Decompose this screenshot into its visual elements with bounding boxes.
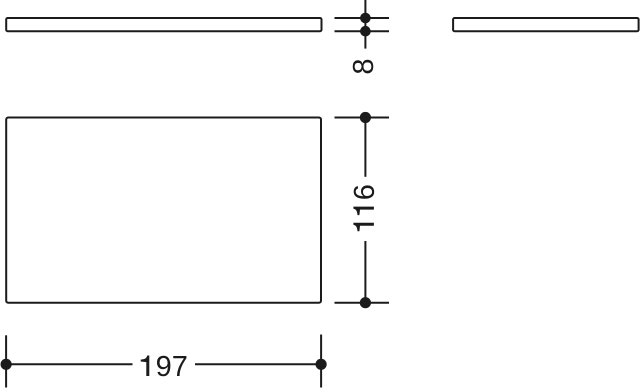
dimension 116: value label	[353, 185, 374, 231]
dimension 116: bottom dot terminator	[360, 297, 371, 308]
dimension 197: right dot terminator	[316, 359, 327, 370]
dimension 197: left dot terminator	[1, 359, 12, 370]
dimension 8: value label	[353, 60, 374, 74]
dimension 197: left extension line	[5, 335, 7, 387]
dimension 116: bottom extension line	[335, 302, 390, 304]
dimension 116: dimension line lower segment	[364, 241, 366, 303]
plate front view	[6, 118, 321, 303]
plate side view top-left	[6, 18, 321, 31]
dimension 8: upper dot terminator	[360, 13, 371, 24]
dimension 197: value label	[141, 356, 187, 377]
dimension 8: dimension line (vertical, overshooting)	[364, 0, 366, 49]
dimension 116: top extension line	[335, 117, 390, 119]
dimension 197: right extension line	[320, 335, 322, 388]
plate side view top-right	[453, 18, 638, 31]
dimension 197: dimension line right segment	[195, 363, 321, 365]
dimension 8: top extension line	[335, 17, 390, 19]
dimension 8: bottom extension line	[335, 30, 390, 32]
dimension 116: dimension line upper segment	[364, 118, 366, 177]
dimension 8: lower dot terminator	[360, 26, 371, 37]
dimension 197: dimension line left segment	[6, 363, 132, 365]
dimension 116: top dot terminator	[360, 112, 371, 123]
